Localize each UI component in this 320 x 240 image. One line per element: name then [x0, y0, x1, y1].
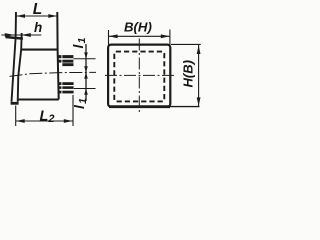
svg-text:B(H): B(H) — [124, 20, 152, 35]
svg-text:H(B): H(B) — [181, 60, 196, 87]
svg-text:h: h — [34, 20, 42, 35]
svg-text:L2: L2 — [40, 109, 55, 126]
svg-text:l1: l1 — [70, 37, 88, 48]
svg-text:L: L — [33, 1, 42, 18]
svg-text:l1: l1 — [71, 98, 89, 109]
